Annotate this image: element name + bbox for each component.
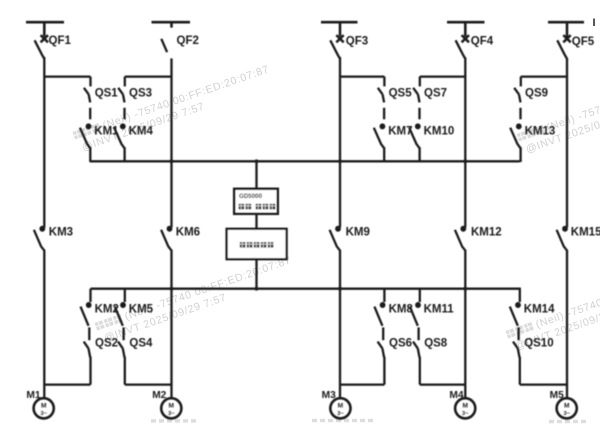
svg-text:3~: 3~ — [337, 411, 344, 417]
svg-text:QF2: QF2 — [177, 35, 199, 47]
svg-text:M: M — [564, 403, 570, 410]
wire stub QF3 to QS5 — [340, 75, 384, 77]
busbar 1 (QF1 supply) — [26, 22, 64, 36]
svg-text:QF1: QF1 — [49, 35, 72, 47]
svg-text:KM8: KM8 — [389, 304, 414, 316]
svg-text:3~: 3~ — [564, 411, 571, 417]
wire feeder QF4 upper — [464, 58, 466, 228]
motor M5 — [550, 390, 577, 418]
wire feeder M4 lower — [464, 250, 466, 399]
svg-text:QS2: QS2 — [95, 338, 118, 350]
svg-text:QS5: QS5 — [389, 88, 413, 100]
svg-text:KM7: KM7 — [388, 126, 412, 138]
inverter unit U1 (GD5000 box) — [234, 161, 278, 214]
svg-text:QS10: QS10 — [524, 338, 553, 350]
disconnector QS6 — [378, 338, 412, 385]
svg-text:KM6: KM6 — [176, 227, 200, 239]
svg-text:M: M — [462, 403, 468, 410]
contactor KM13 — [510, 108, 555, 162]
motor M4 — [449, 390, 475, 418]
svg-text:KM3: KM3 — [49, 227, 73, 239]
busbar 2 (QF2 supply) — [152, 22, 191, 27]
disconnector QS5 — [378, 77, 412, 103]
busbar 4 (QF4 supply) — [447, 22, 485, 36]
motor M1 — [26, 390, 53, 418]
contactor KM6 — [161, 226, 200, 250]
svg-text:3~: 3~ — [168, 411, 175, 417]
disconnector QS10 — [513, 338, 554, 385]
node bus1-QF3 junction — [338, 159, 342, 163]
svg-text:QS3: QS3 — [129, 88, 152, 100]
svg-text:QS4: QS4 — [129, 338, 153, 350]
wire bus 1 (inverter input bus) — [90, 160, 520, 162]
contactor KM1 — [80, 108, 119, 162]
wire tie QS4 to M2 feeder — [125, 383, 172, 385]
svg-text:KM11: KM11 — [424, 304, 455, 316]
motor M3 — [322, 390, 351, 418]
circuit breaker QF5 (closed, X mark) — [557, 35, 594, 58]
contactor KM5 — [115, 289, 154, 341]
svg-text:M3: M3 — [322, 390, 336, 401]
busbar 5 (QF5 supply) — [548, 22, 584, 37]
wire switching cabinet to bus 2 — [255, 259, 257, 289]
node bus2-cabinet junction — [255, 287, 259, 291]
svg-text:QS9: QS9 — [525, 88, 548, 100]
circuit breaker QF3 (closed, X mark) — [330, 35, 368, 58]
svg-text:QF5: QF5 — [572, 36, 595, 48]
disconnector QS4 — [118, 338, 153, 385]
svg-text:QS1: QS1 — [95, 88, 119, 100]
svg-text:3~: 3~ — [41, 411, 48, 417]
disconnector QS2 — [84, 338, 118, 385]
wire tie QS2 to M1 feeder — [44, 383, 90, 385]
svg-text:QS7: QS7 — [424, 88, 447, 100]
node bus2-M3 junction — [338, 287, 342, 291]
wire feeder M2 lower — [170, 250, 172, 399]
contactor KM4 — [114, 108, 153, 162]
svg-text:QS6: QS6 — [389, 338, 412, 350]
wire feeder M3 lower — [339, 250, 341, 399]
disconnector QS3 — [118, 77, 152, 103]
disconnector QS7 — [413, 77, 447, 103]
svg-text:M5: M5 — [550, 390, 564, 401]
wire tie QS8 to M4 feeder — [420, 383, 466, 385]
disconnector QS9 — [514, 77, 548, 103]
svg-text:M4: M4 — [449, 390, 463, 401]
svg-text:M: M — [41, 403, 47, 410]
svg-text:KM10: KM10 — [424, 126, 455, 138]
node bus1-QF2 junction — [170, 159, 174, 163]
wire bus 2 (bypass output bus) — [91, 288, 521, 290]
svg-text:KM4: KM4 — [129, 126, 154, 138]
circuit breaker QF4 (closed, X mark) — [456, 35, 494, 58]
contactor KM7 — [374, 108, 413, 162]
circuit breaker QF1 (closed, X mark) — [35, 35, 72, 59]
wire inverter to switching cabinet — [255, 214, 257, 229]
wire tie QS6 to M3 feeder — [340, 383, 384, 385]
svg-text:KM9: KM9 — [346, 227, 370, 239]
wire feeder QF3 upper — [339, 57, 341, 227]
wire feeder M1 lower — [43, 250, 45, 399]
svg-text:QS8: QS8 — [424, 338, 448, 350]
contactor KM11 — [410, 289, 454, 341]
svg-text:QF3: QF3 — [346, 35, 368, 47]
contactor KM2 — [81, 289, 119, 341]
contactor KM14 — [510, 289, 555, 341]
wire stub QF1 to QS1 — [44, 75, 90, 77]
wire feeder M5 lower — [566, 250, 568, 399]
wire feeder QF2 upper — [170, 67, 172, 228]
contactor KM8 — [374, 289, 413, 341]
contactor KM3 — [34, 226, 73, 250]
wire stub QS3 to QF2 — [125, 75, 172, 77]
contactor KM15 — [557, 226, 600, 250]
circuit breaker QF2 (open) — [161, 35, 199, 67]
wire feeder QF1 upper — [43, 57, 45, 227]
svg-text:KM5: KM5 — [129, 304, 154, 316]
wire tie QS10 to M5 feeder — [520, 383, 567, 385]
svg-text:QF4: QF4 — [471, 36, 494, 48]
node bus1-inverter junction — [255, 159, 259, 163]
motor M2 — [152, 390, 181, 418]
busbar 3 (QF3 supply) — [321, 22, 358, 36]
svg-text:KM12: KM12 — [471, 227, 502, 239]
contactor KM10 — [409, 108, 454, 162]
disconnector QS1 — [84, 77, 118, 103]
switching cabinet U2 (bypass box) — [227, 229, 287, 259]
wire feeder QF5 upper — [566, 58, 568, 227]
node bus1-QF4 junction — [463, 159, 467, 163]
wire stub QS7 to QF4 — [420, 75, 466, 77]
node bus2-M4 junction — [463, 287, 467, 291]
svg-text:M1: M1 — [26, 390, 40, 401]
svg-text:M: M — [338, 403, 344, 410]
contactor KM12 — [455, 226, 502, 250]
svg-text:M: M — [169, 403, 175, 410]
node bus2-M2 junction — [170, 287, 174, 291]
disconnector QS8 — [413, 338, 448, 385]
svg-text:KM14: KM14 — [524, 304, 555, 316]
svg-text:3~: 3~ — [462, 411, 469, 417]
svg-text:M2: M2 — [152, 390, 166, 401]
contactor KM9 — [330, 226, 370, 250]
svg-text:GD5000: GD5000 — [239, 193, 263, 200]
wire stub QS9 to QF5 — [521, 75, 567, 77]
svg-text:KM15: KM15 — [571, 227, 600, 239]
svg-text:KM13: KM13 — [525, 126, 556, 138]
